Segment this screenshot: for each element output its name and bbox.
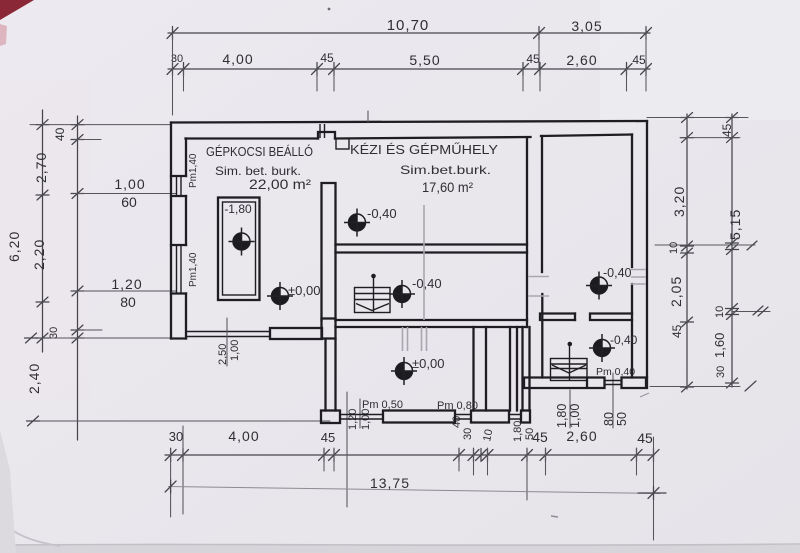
wall right room bottom left part xyxy=(540,314,575,321)
svg-text:3,05: 3,05 xyxy=(571,18,602,34)
svg-text:22,00 m²: 22,00 m² xyxy=(249,176,311,192)
pit level marker xyxy=(229,228,255,256)
extension line top wall to left xyxy=(30,124,171,126)
window left upper xyxy=(177,176,182,196)
wall right room bottom right part xyxy=(575,314,632,321)
svg-text:3,20: 3,20 xyxy=(671,186,687,217)
svg-text:GÉPKOCSI BEÁLLÓ: GÉPKOCSI BEÁLLÓ xyxy=(206,144,313,159)
pink streak left edge xyxy=(0,24,7,46)
gate dim line xyxy=(226,318,228,366)
wall W1 lower xyxy=(326,339,336,411)
tick 10,70 left xyxy=(167,27,178,40)
wall top inner right xyxy=(541,135,632,137)
svg-text:-0,40: -0,40 xyxy=(610,333,638,347)
svg-text:2,20: 2,20 xyxy=(31,239,47,270)
left edge vignette xyxy=(0,430,16,553)
svg-text:45: 45 xyxy=(632,53,646,67)
svg-text:Pm 0,50: Pm 0,50 xyxy=(362,399,403,411)
garage pit inner xyxy=(223,202,256,295)
stair middle xyxy=(355,288,391,313)
svg-text:5,50: 5,50 xyxy=(409,52,440,68)
svg-text:Pm1,40: Pm1,40 xyxy=(188,153,199,188)
bottom wall block 2 xyxy=(383,411,455,423)
bottom wall window 3 xyxy=(509,415,521,420)
wall left pillar caps xyxy=(171,176,186,339)
svg-text:50: 50 xyxy=(615,412,629,426)
wall annex bottom window xyxy=(605,381,622,385)
window left lower xyxy=(177,245,182,294)
svg-text:Pm1,40: Pm1,40 xyxy=(188,252,199,287)
svg-text:±0,00: ±0,00 xyxy=(412,356,444,371)
door leaf at garage-workshop xyxy=(336,139,349,150)
right dim line D xyxy=(731,114,733,387)
svg-text:2,40: 2,40 xyxy=(26,363,42,394)
bottom paper edge line xyxy=(0,544,800,545)
wall left outer xyxy=(170,123,172,339)
annex level marker -0,40 xyxy=(589,334,615,362)
bottom-left paper corner curve xyxy=(0,520,60,546)
svg-text:30: 30 xyxy=(462,428,474,440)
svg-text:1,00: 1,00 xyxy=(229,340,241,361)
ticks row2 xyxy=(167,63,178,76)
stair annex arrow xyxy=(552,365,586,373)
bottom wall foot block xyxy=(321,411,340,424)
wall garage bottom thin xyxy=(186,332,270,337)
extension stub right low xyxy=(732,311,770,313)
svg-text:10,70: 10,70 xyxy=(387,17,430,34)
stair middle arrow xyxy=(356,304,389,311)
svg-text:45: 45 xyxy=(321,430,335,445)
extension stub 45 right xyxy=(680,137,740,139)
svg-text:-1,80: -1,80 xyxy=(224,202,252,216)
wall garage bottom thick block xyxy=(270,328,322,339)
svg-text:40: 40 xyxy=(53,127,67,141)
stray pencil dash above top wall xyxy=(367,111,369,122)
wall B opening light marks xyxy=(528,277,549,297)
svg-text:45: 45 xyxy=(670,324,684,338)
svg-text:2,60: 2,60 xyxy=(566,428,597,444)
extension stub right mid xyxy=(655,244,755,246)
extension line 1,20/80 xyxy=(76,290,176,292)
wall mid-bottom right divider xyxy=(510,327,517,411)
right room level marker -0,40 xyxy=(586,272,612,300)
svg-text:45: 45 xyxy=(637,430,653,446)
dim line 10,70 / 3,05 xyxy=(168,32,650,34)
svg-text:2,70: 2,70 xyxy=(33,152,49,183)
svg-text:80: 80 xyxy=(602,412,616,426)
bottom wall window 1 xyxy=(340,415,383,420)
door threshold lines in top wall notch xyxy=(320,124,325,138)
svg-text:17,60 m²: 17,60 m² xyxy=(422,179,473,195)
paper tint top-right bluish xyxy=(600,0,800,120)
dim line 30/4,00/45/5,50/45/2,60/45 xyxy=(168,68,650,70)
bottom wall block 4 xyxy=(521,411,530,423)
extension long line 2,40 bottom xyxy=(28,420,330,422)
lower room level marker ±0,00 xyxy=(391,357,417,385)
door opening marks middle room xyxy=(403,327,427,351)
stair middle treads xyxy=(355,294,391,300)
svg-text:2,60: 2,60 xyxy=(566,52,597,68)
wall top notch pillar xyxy=(318,132,335,139)
svg-text:4,00: 4,00 xyxy=(222,51,253,67)
svg-text:-0,40: -0,40 xyxy=(367,206,397,221)
tick 3,05 right xyxy=(641,27,652,40)
svg-text:10: 10 xyxy=(714,306,726,318)
wall H1 workshop divider xyxy=(336,245,528,253)
extension stub 40 xyxy=(76,139,101,141)
bottom extension verticals xyxy=(170,448,172,517)
extension line top right xyxy=(647,117,748,119)
svg-text:45: 45 xyxy=(320,51,334,65)
svg-text:1,60: 1,60 xyxy=(712,333,727,358)
extension line garage bottom xyxy=(28,337,171,339)
small scratch near annex corner xyxy=(640,393,649,397)
faint dot above plan xyxy=(328,8,331,11)
svg-text:4,00: 4,00 xyxy=(228,428,259,444)
wall top outer xyxy=(171,121,647,123)
wall A stub xyxy=(526,139,528,328)
bottom wall window 2 xyxy=(455,415,471,420)
wall right outer xyxy=(646,121,648,386)
svg-text:10: 10 xyxy=(481,428,495,442)
left dim line B xyxy=(77,116,79,440)
svg-text:30: 30 xyxy=(48,327,60,339)
wall H2 middle room bottom xyxy=(336,320,528,327)
wall mid-bottom left divider xyxy=(474,327,487,411)
svg-text:45: 45 xyxy=(526,52,540,66)
stair annex xyxy=(551,359,588,381)
wall annex bottom left xyxy=(524,378,605,389)
wall B lower xyxy=(541,294,543,378)
right dim line C xyxy=(686,114,688,389)
svg-text:60: 60 xyxy=(121,194,137,210)
baseline 13,75 xyxy=(168,487,660,494)
svg-text:Pm 0,80: Pm 0,80 xyxy=(437,400,478,412)
svg-text:80: 80 xyxy=(120,294,136,310)
garage pit outer xyxy=(218,198,260,301)
extension stub 30 xyxy=(74,329,102,331)
svg-text:30: 30 xyxy=(715,366,727,378)
extension annex bottom right xyxy=(650,386,740,388)
svg-text:2,05: 2,05 xyxy=(668,276,684,307)
wall B workshop-right divider upper xyxy=(541,136,543,272)
wall top inner left xyxy=(186,137,319,139)
svg-text:6,20: 6,20 xyxy=(6,231,22,262)
svg-text:10: 10 xyxy=(668,242,680,254)
workshop level marker -0,40 xyxy=(344,209,370,237)
paper tint pink left xyxy=(0,80,90,400)
middle room level marker -0,40 xyxy=(389,280,415,308)
extension line 1,00/60 xyxy=(76,193,176,195)
stair annex axis xyxy=(569,344,571,380)
svg-text:1,00: 1,00 xyxy=(114,176,145,192)
svg-text:Pm 0,40: Pm 0,40 xyxy=(596,366,635,378)
small scan speck xyxy=(551,516,558,517)
stair middle axis xyxy=(373,276,375,313)
right wall opening light marks xyxy=(631,270,646,285)
wall W1 junction block xyxy=(322,319,336,339)
svg-text:1,80: 1,80 xyxy=(555,404,569,428)
faint construction vertical xyxy=(423,205,425,320)
bottom dim row line xyxy=(165,454,654,456)
wall annex connector xyxy=(523,327,530,411)
svg-text:Sim.bet.burk.: Sim.bet.burk. xyxy=(400,163,491,177)
double slash marks right mid stub xyxy=(753,306,768,316)
svg-text:13,75: 13,75 xyxy=(370,475,410,491)
bottom wall block 3 xyxy=(471,411,509,423)
wall top inner middle xyxy=(335,137,531,139)
red scan sliver top-left corner xyxy=(0,0,34,20)
svg-text:45: 45 xyxy=(532,429,548,445)
svg-text:30: 30 xyxy=(169,429,183,444)
garage level marker ±0,00 xyxy=(267,282,293,310)
wall left inner segments xyxy=(185,139,187,339)
tick 10,70/3,05 xyxy=(534,27,545,40)
svg-text:±0,00: ±0,00 xyxy=(288,283,320,298)
extension verticals top xyxy=(172,33,174,115)
stair annex treads xyxy=(551,364,588,369)
svg-text:1,20: 1,20 xyxy=(111,276,142,292)
svg-text:45: 45 xyxy=(720,123,734,137)
svg-text:-0,40: -0,40 xyxy=(603,266,632,280)
tick on right annex extension xyxy=(745,381,756,391)
wall right inner xyxy=(631,135,633,378)
svg-text:1,80: 1,80 xyxy=(512,421,524,442)
svg-text:-0,40: -0,40 xyxy=(412,276,442,291)
wall annex bottom right xyxy=(622,378,648,389)
wall W1 garage-middle divider xyxy=(322,183,336,320)
svg-text:KÉZI ÉS GÉPMŰHELY: KÉZI ÉS GÉPMŰHELY xyxy=(350,142,498,157)
left dim line A xyxy=(42,110,44,352)
bottom shadow strip xyxy=(0,545,800,553)
svg-text:5,15: 5,15 xyxy=(727,209,743,240)
slash mark right upper stub xyxy=(747,241,757,250)
